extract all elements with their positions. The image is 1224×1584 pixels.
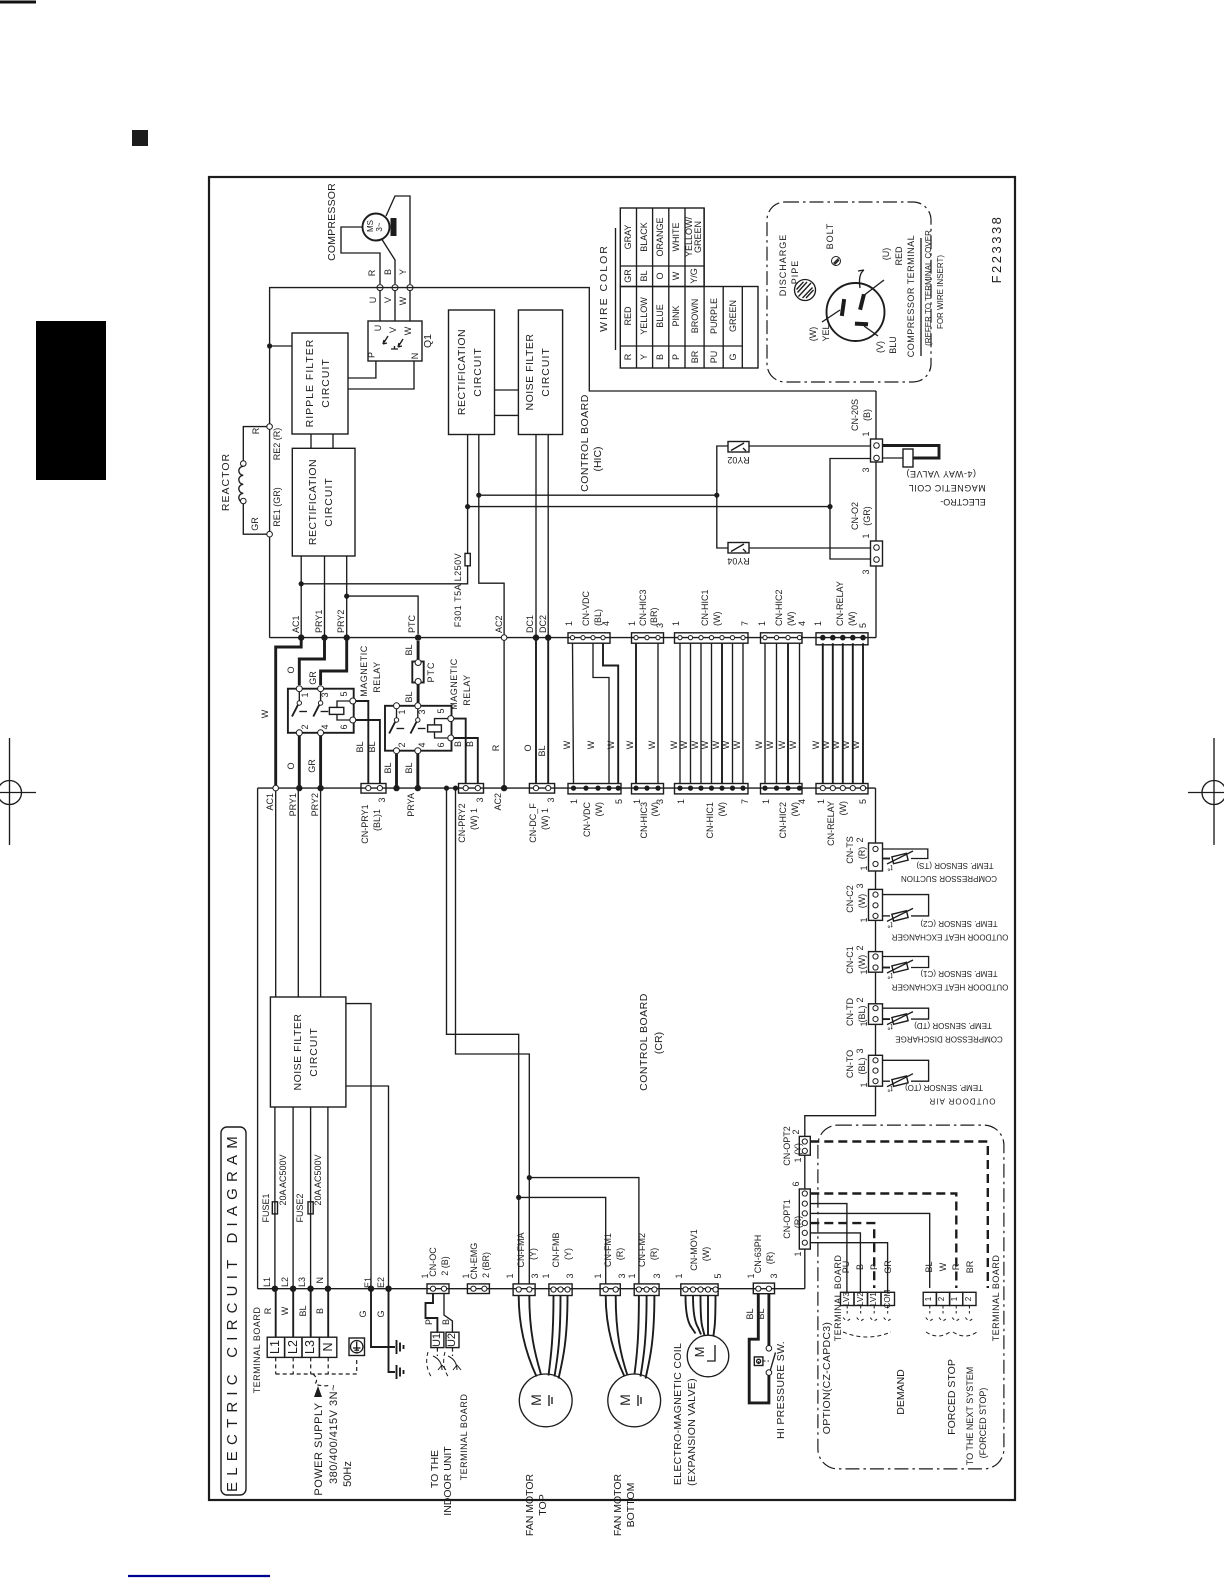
svg-text:(R): (R)	[649, 1248, 659, 1261]
svg-text:CN-OPT1: CN-OPT1	[782, 1199, 792, 1239]
svg-text:(GR): (GR)	[862, 506, 872, 526]
svg-text:3: 3	[546, 797, 556, 802]
svg-text:F301 T5A L250V: F301 T5A L250V	[453, 553, 463, 627]
svg-text:(R): (R)	[793, 1216, 803, 1229]
svg-text:PTC: PTC	[426, 662, 436, 683]
svg-text:W: W	[938, 1262, 948, 1271]
connector CN-PRY1 (BL)	[360, 784, 387, 844]
svg-text:INDOOR UNIT: INDOOR UNIT	[442, 1446, 454, 1516]
svg-text:F223338: F223338	[989, 215, 1004, 284]
svg-text:Y: Y	[639, 354, 649, 360]
svg-text:L3: L3	[303, 1340, 317, 1354]
svg-text:COMPRESSOR: COMPRESSOR	[326, 183, 338, 261]
svg-text:BL: BL	[298, 1305, 308, 1316]
svg-text:(B): (B)	[862, 409, 872, 421]
svg-text:(CR): (CR)	[653, 1032, 665, 1054]
svg-text:4: 4	[601, 621, 611, 626]
svg-text:M: M	[617, 1394, 633, 1406]
svg-text:20A AC500V: 20A AC500V	[313, 1154, 323, 1205]
compressor motor MS 3~	[326, 183, 397, 261]
svg-text:1: 1	[859, 1082, 869, 1087]
svg-text:CN-TS: CN-TS	[845, 836, 855, 864]
connector CN-FM1 (R)	[593, 1233, 627, 1296]
svg-text:MAGNETIC: MAGNETIC	[449, 658, 459, 710]
svg-text:W: W	[690, 740, 700, 749]
svg-text:BL: BL	[745, 1308, 755, 1319]
svg-text:CN-PRY2: CN-PRY2	[457, 803, 467, 842]
svg-text:3: 3	[565, 1273, 575, 1278]
svg-text:YELLOW: YELLOW	[639, 297, 649, 335]
svg-text:GR: GR	[883, 1260, 893, 1274]
svg-text:WIRE COLOR: WIRE COLOR	[598, 244, 610, 332]
svg-text:PRYA: PRYA	[406, 793, 416, 817]
svg-text:BLUE: BLUE	[655, 304, 665, 328]
svg-text:B: B	[465, 741, 475, 747]
svg-text:t°: t°	[887, 1084, 892, 1093]
svg-text:TOP: TOP	[537, 1494, 549, 1515]
svg-text:W: W	[821, 740, 831, 749]
wire relay1 pin5 to CN-PRY1 pin1	[356, 701, 369, 784]
wire AC1 to noise filter	[275, 791, 277, 997]
svg-text:R: R	[951, 1263, 961, 1270]
svg-text:W: W	[732, 740, 742, 749]
svg-text:2: 2	[855, 997, 865, 1002]
svg-text:P: P	[424, 1319, 434, 1325]
svg-text:MAGNETIC COIL: MAGNETIC COIL	[908, 483, 986, 493]
svg-text:RED: RED	[623, 306, 633, 326]
svg-text:2: 2	[300, 724, 310, 729]
svg-text:4: 4	[797, 799, 807, 804]
svg-text:3: 3	[655, 799, 665, 804]
terminal board U1 U2	[427, 1332, 461, 1378]
title box ELECTRIC CIRCUIT DIAGRAM	[221, 1127, 246, 1495]
svg-text:W: W	[280, 1306, 290, 1315]
svg-text:O: O	[286, 666, 296, 673]
wire U to Q1	[379, 291, 381, 321]
svg-text:(Y): (Y)	[528, 1248, 538, 1260]
inverter Q1	[367, 321, 435, 361]
svg-text:3: 3	[617, 1273, 627, 1278]
wires CN-RELAY	[822, 643, 824, 783]
svg-text:OUTDOOR HEAT EXCHANGER: OUTDOOR HEAT EXCHANGER	[891, 933, 1008, 942]
svg-text:1: 1	[505, 1273, 515, 1278]
svg-text:W: W	[398, 296, 408, 305]
svg-text:(W): (W)	[857, 894, 867, 909]
svg-text:YEL: YEL	[821, 324, 831, 341]
svg-text:RED: RED	[894, 246, 904, 266]
svg-text:ELECTRO-: ELECTRO-	[940, 497, 986, 507]
svg-text:CN-FMA: CN-FMA	[516, 1233, 526, 1268]
wire ripple to main line	[270, 345, 292, 347]
node W	[407, 285, 413, 291]
svg-text:FORCED STOP: FORCED STOP	[946, 1359, 958, 1435]
svg-text:3: 3	[861, 467, 871, 472]
connector CN-O2 (GR)	[850, 502, 883, 575]
left margin black tab	[36, 321, 106, 480]
svg-text:W: W	[851, 740, 861, 749]
svg-text:OUTDOOR HEAT EXCHANGER: OUTDOOR HEAT EXCHANGER	[891, 983, 1008, 992]
HIC noise filter circuit box	[518, 310, 562, 435]
svg-text:TEMP. SENSOR (TD): TEMP. SENSOR (TD)	[914, 1021, 992, 1030]
svg-text:RE1 (GR): RE1 (GR)	[272, 487, 282, 527]
svg-text:RY02: RY02	[727, 455, 749, 465]
svg-text:6: 6	[791, 1181, 801, 1186]
bus3 nodes	[272, 1286, 278, 1292]
svg-text:50Hz: 50Hz	[342, 1461, 354, 1487]
svg-text:3: 3	[769, 1273, 779, 1278]
svg-text:2: 2	[937, 1296, 946, 1301]
svg-text:L1: L1	[262, 1277, 272, 1287]
option terminal board forced stop	[923, 1255, 1001, 1342]
connector CN-DC_F (W)	[528, 784, 556, 843]
wire Q1 N to ripple filter	[348, 361, 414, 389]
fan link PRY feeds	[447, 788, 519, 1284]
node V	[392, 285, 398, 291]
connector CN-HIC2 (W) bottom	[761, 784, 808, 839]
svg-text:CN-HIC2: CN-HIC2	[774, 589, 784, 626]
wire PTC branch from PRY2	[347, 596, 418, 634]
svg-text:M: M	[692, 1347, 707, 1358]
svg-text:POWER SUPPLY: POWER SUPPLY	[313, 1402, 325, 1495]
svg-text:CN-PRY1: CN-PRY1	[360, 804, 370, 843]
svg-text:L3: L3	[297, 1277, 307, 1287]
svg-text:5: 5	[436, 708, 446, 713]
svg-text:PRY2: PRY2	[310, 793, 320, 816]
svg-text:FUSE1: FUSE1	[261, 1193, 271, 1222]
svg-text:N: N	[410, 353, 420, 360]
svg-text:AC2: AC2	[493, 793, 503, 811]
svg-text:BL: BL	[367, 741, 377, 752]
svg-text:PRY1: PRY1	[314, 610, 324, 633]
svg-text:1: 1	[569, 799, 579, 804]
svg-text:B: B	[383, 269, 393, 275]
svg-text:CN-HIC1: CN-HIC1	[700, 589, 710, 626]
svg-text:GR: GR	[307, 759, 317, 773]
svg-text:M: M	[528, 1394, 544, 1406]
svg-text:BL: BL	[756, 1308, 766, 1319]
svg-text:1: 1	[924, 1296, 933, 1301]
magnetic relay 2	[385, 658, 472, 753]
wires to terminal board	[275, 1289, 277, 1338]
svg-text:GR: GR	[308, 671, 318, 685]
svg-text:O: O	[523, 744, 533, 751]
svg-text:PTC: PTC	[407, 614, 417, 633]
svg-text:COMPRESSOR SUCTION: COMPRESSOR SUCTION	[901, 874, 997, 883]
svg-text:BR: BR	[690, 350, 700, 363]
svg-text:W: W	[260, 709, 270, 718]
svg-text:t°: t°	[887, 863, 892, 872]
option terminal board demand	[833, 1255, 895, 1342]
svg-text:P: P	[367, 352, 377, 358]
svg-text:RY04: RY04	[727, 556, 749, 566]
svg-text:PRY2: PRY2	[336, 610, 346, 633]
wire RY04 to CN-O2 pin1	[749, 547, 871, 549]
connector CN-RELAY (W) bottom	[816, 784, 868, 846]
svg-text:N: N	[315, 1277, 325, 1284]
svg-text:FAN MOTOR: FAN MOTOR	[612, 1473, 624, 1536]
right registration mark	[1188, 738, 1224, 845]
sensor CN-TD (BL) compressor discharge	[845, 997, 1003, 1043]
svg-text:(V): (V)	[875, 341, 885, 353]
svg-text:CN-HIC3: CN-HIC3	[638, 589, 648, 626]
svg-text:O: O	[286, 762, 296, 769]
svg-text:Y: Y	[398, 269, 408, 275]
svg-text:CN-FM1: CN-FM1	[603, 1233, 613, 1267]
svg-text:CN-RELAY: CN-RELAY	[826, 801, 836, 846]
svg-text:OPTION(CZ-CAPDC3): OPTION(CZ-CAPDC3)	[821, 1322, 833, 1434]
svg-text:1: 1	[859, 969, 869, 974]
svg-text:1: 1	[950, 1296, 959, 1301]
svg-text:REACTOR: REACTOR	[220, 453, 232, 511]
svg-text:COM: COM	[883, 1289, 892, 1308]
svg-text:TERMINAL BOARD: TERMINAL BOARD	[459, 1394, 469, 1481]
svg-text:t°: t°	[887, 920, 892, 929]
sensor CN-C1 (W) outdoor heat exchanger	[845, 945, 1008, 991]
svg-text:FAN MOTOR: FAN MOTOR	[524, 1473, 536, 1536]
svg-text:W: W	[831, 740, 841, 749]
wire relay1 pin4 to bus2	[319, 736, 322, 788]
svg-text:BOTTOM: BOTTOM	[625, 1483, 637, 1528]
svg-text:380/400/415V 3N~: 380/400/415V 3N~	[328, 1384, 340, 1484]
svg-text:BL: BL	[639, 270, 649, 281]
wire F301 branch to AC1	[301, 566, 467, 584]
wire O PRY1 to relay1 pin1	[299, 638, 324, 685]
fan motor BOTTOM	[606, 1296, 661, 1537]
svg-text:(W) 1: (W) 1	[540, 808, 550, 830]
svg-text:LV1: LV1	[869, 1292, 878, 1306]
svg-text:CIRCUIT: CIRCUIT	[308, 1027, 320, 1077]
svg-text:TEMP. SENSOR (TS): TEMP. SENSOR (TS)	[916, 861, 994, 870]
svg-text:CN-O2: CN-O2	[850, 502, 860, 530]
svg-text:NOISE FILTER: NOISE FILTER	[524, 334, 536, 411]
svg-text:TO THE NEXT SYSTEM: TO THE NEXT SYSTEM	[965, 1367, 975, 1466]
svg-text:(W): (W)	[701, 1247, 711, 1262]
svg-text:t°: t°	[887, 1022, 892, 1031]
rectification circuit box (main)	[292, 448, 355, 556]
svg-text:3: 3	[475, 797, 485, 802]
wire E2	[346, 1086, 389, 1289]
svg-text:(4-WAY VALVE): (4-WAY VALVE)	[906, 469, 976, 479]
svg-text:CIRCUIT: CIRCUIT	[323, 477, 335, 527]
wire RY02 to CN-20S pin1	[749, 445, 871, 447]
connector CN-VDC (BL) top	[564, 591, 611, 644]
wire V to Q1	[394, 291, 396, 321]
wire DC2	[547, 435, 549, 638]
svg-text:(BL): (BL)	[857, 1057, 867, 1074]
svg-text:(REFER TO TERMINAL COVER: (REFER TO TERMINAL COVER	[924, 230, 933, 346]
svg-text:ELECTRO-MAGNETIC COIL: ELECTRO-MAGNETIC COIL	[672, 1343, 684, 1485]
svg-text:CN-VDC: CN-VDC	[581, 591, 591, 626]
wire PRY2 to noise filter	[320, 791, 322, 997]
wire relay1 pin6 to CN-PRY1 pin3	[356, 720, 380, 784]
wire relay2 pin6 to CN-PRY2 pin3	[454, 738, 478, 784]
compressor terminal detail	[767, 202, 945, 382]
svg-text:W: W	[586, 740, 596, 749]
svg-text:CN-FM2: CN-FM2	[637, 1233, 647, 1267]
svg-text:FUSE2: FUSE2	[295, 1193, 305, 1222]
connector CN-FMA (Y)	[505, 1233, 540, 1296]
svg-text:W: W	[777, 740, 787, 749]
svg-text:CN-C1: CN-C1	[845, 946, 855, 974]
svg-text:(W): (W)	[838, 801, 848, 816]
svg-text:G: G	[728, 353, 738, 360]
bus2 CR board top edge	[258, 787, 876, 789]
svg-text:3: 3	[855, 1048, 865, 1053]
connector CN-HIC1 (W) bottom	[675, 784, 751, 839]
svg-text:E2: E2	[376, 1277, 386, 1288]
CR board right edge	[875, 788, 877, 843]
svg-text:W: W	[606, 740, 616, 749]
svg-text:5: 5	[614, 799, 624, 804]
svg-text:BL: BL	[924, 1261, 934, 1272]
connector CN-FMB (Y)	[541, 1233, 575, 1296]
svg-text:1: 1	[861, 431, 871, 436]
svg-text:PINK: PINK	[671, 305, 681, 326]
wire AC2 below bus1	[503, 640, 505, 785]
wire E1	[346, 1004, 371, 1289]
svg-text:BL: BL	[355, 741, 365, 752]
wires CN-VDC	[573, 643, 574, 783]
svg-text:(EXPANSION VALVE): (EXPANSION VALVE)	[686, 1378, 698, 1486]
svg-text:PRY1: PRY1	[288, 793, 298, 816]
svg-text:t°: t°	[887, 971, 892, 980]
svg-text:2: 2	[964, 1296, 973, 1301]
svg-text:CN-TO: CN-TO	[845, 1050, 855, 1078]
svg-text:(W): (W)	[712, 612, 722, 627]
wire CN-20S pin3 loop to CN-O2 pin3	[830, 459, 871, 560]
svg-text:CN-C2: CN-C2	[845, 885, 855, 913]
svg-text:P: P	[671, 354, 681, 360]
svg-text:3: 3	[417, 709, 427, 714]
svg-text:(FORCED STOP): (FORCED STOP)	[978, 1388, 988, 1459]
option wiring dashed	[810, 1142, 988, 1293]
wire RY rail feed	[479, 494, 717, 496]
svg-text:20A AC500V: 20A AC500V	[278, 1154, 288, 1205]
svg-text:G: G	[358, 1310, 368, 1317]
svg-text:W: W	[811, 740, 821, 749]
wire DC2 below bus1	[547, 638, 549, 784]
svg-text:1: 1	[859, 917, 869, 922]
svg-text:BROWN: BROWN	[690, 299, 700, 334]
connector CN-RELAY (W) top	[813, 581, 868, 645]
svg-text:2: 2	[855, 945, 865, 950]
svg-text:3: 3	[320, 692, 330, 697]
svg-text:B: B	[315, 1308, 325, 1314]
footer blue rule	[128, 1575, 270, 1577]
svg-text:(W): (W)	[594, 802, 604, 817]
svg-text:(R): (R)	[765, 1252, 775, 1265]
terminal board main	[252, 1307, 337, 1394]
svg-text:NOISE FILTER: NOISE FILTER	[292, 1014, 304, 1091]
svg-text:5: 5	[858, 623, 868, 628]
sensor CN-TO (BL) outdoor air	[845, 1048, 996, 1105]
connector CN-63PH (R)	[746, 1235, 779, 1294]
svg-text:(Y): (Y)	[563, 1248, 573, 1260]
svg-text:BLU: BLU	[888, 336, 898, 354]
svg-text:W: W	[647, 740, 657, 749]
svg-text:W: W	[562, 740, 572, 749]
wire L3 with FUSE2	[295, 1107, 323, 1289]
svg-text:B: B	[655, 354, 665, 360]
wire ripple to rectification stubs	[310, 434, 312, 448]
svg-text:1: 1	[300, 692, 310, 697]
svg-text:1: 1	[593, 1273, 603, 1278]
svg-text:3: 3	[377, 797, 387, 802]
svg-text:1: 1	[674, 1273, 684, 1278]
svg-text:PURPLE: PURPLE	[709, 298, 719, 334]
svg-text:L1: L1	[268, 1340, 282, 1354]
wire DC1	[535, 435, 537, 638]
svg-text:(BL): (BL)	[857, 1005, 867, 1022]
svg-text:RELAY: RELAY	[462, 674, 472, 705]
svg-text:W: W	[841, 740, 851, 749]
svg-text:GREEN: GREEN	[693, 221, 703, 253]
svg-text:G: G	[376, 1310, 386, 1317]
fuse F301 T5A L250V	[453, 435, 470, 628]
wire AC2 from HIC rect	[479, 435, 504, 635]
fan link to CN-FM1	[519, 1197, 606, 1284]
connector CN-HIC3 (W) bottom	[632, 784, 666, 839]
svg-text:FOR WIRE INSERT): FOR WIRE INSERT)	[936, 255, 945, 329]
svg-text:CIRCUIT: CIRCUIT	[540, 347, 552, 397]
noise filter circuit box (CR)	[270, 997, 346, 1107]
svg-text:CN-OC: CN-OC	[428, 1247, 438, 1277]
svg-text:(W) 1: (W) 1	[469, 808, 479, 830]
svg-text:CONTROL BOARD: CONTROL BOARD	[579, 394, 591, 492]
svg-text:(W): (W)	[717, 802, 727, 817]
bus2 nodes	[273, 785, 279, 791]
svg-text:4: 4	[417, 742, 427, 747]
connector CN-PRY2 (W)	[457, 784, 485, 843]
svg-text:W: W	[671, 271, 681, 280]
svg-text:LV2: LV2	[856, 1292, 865, 1306]
svg-text:(W): (W)	[808, 327, 818, 342]
wire PRY2	[346, 556, 348, 638]
svg-text:6: 6	[436, 742, 446, 747]
electro-magnetic coil 4-way valve	[883, 446, 986, 508]
svg-text:CN-DC_F: CN-DC_F	[528, 803, 538, 843]
svg-text:RE2 (R): RE2 (R)	[272, 428, 282, 461]
svg-text:BOLT: BOLT	[825, 223, 835, 250]
node U	[377, 285, 383, 291]
connector CN-OPT2 (Y)	[782, 1126, 810, 1166]
magnetic relay 1	[288, 645, 382, 736]
svg-text:U: U	[368, 297, 378, 304]
connector CN-OPT1 (R)	[782, 1181, 810, 1256]
svg-text:W: W	[679, 740, 689, 749]
svg-text:7: 7	[740, 799, 750, 804]
svg-text:V: V	[388, 327, 398, 333]
svg-text:RECTIFICATION: RECTIFICATION	[307, 459, 319, 545]
svg-text:W: W	[711, 740, 721, 749]
svg-text:BLACK: BLACK	[639, 222, 649, 252]
junction dot	[267, 343, 272, 348]
svg-text:BL: BL	[404, 691, 414, 702]
svg-text:MAGNETIC: MAGNETIC	[359, 645, 369, 697]
svg-text:2: 2	[791, 1129, 801, 1134]
svg-text:2: 2	[397, 742, 407, 747]
svg-text:1: 1	[859, 865, 869, 870]
svg-text:V: V	[383, 297, 393, 303]
svg-text:TEMP. SENSOR (C1): TEMP. SENSOR (C1)	[920, 969, 998, 978]
wire relay2 pin2 to bus2	[395, 754, 398, 788]
svg-text:HI PRESSURE SW.: HI PRESSURE SW.	[775, 1341, 787, 1439]
sensor CN-C2 (W) outdoor heat exchanger	[845, 883, 1008, 941]
svg-text:TO THE: TO THE	[429, 1450, 441, 1488]
svg-text:1: 1	[627, 1273, 637, 1278]
svg-text:U: U	[373, 325, 383, 332]
earth symbols E1 E2	[358, 1289, 404, 1379]
